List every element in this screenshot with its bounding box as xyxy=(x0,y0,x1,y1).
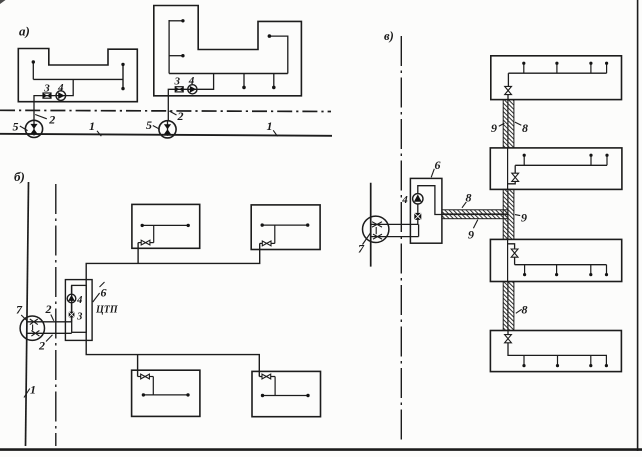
svg-text:9: 9 xyxy=(521,210,527,224)
svg-text:2: 2 xyxy=(38,339,45,353)
svg-text:6: 6 xyxy=(435,158,441,172)
svg-text:4: 4 xyxy=(401,194,408,206)
svg-text:8: 8 xyxy=(522,121,528,135)
svg-text:ЦТП: ЦТП xyxy=(95,305,119,316)
svg-text:5: 5 xyxy=(13,119,19,133)
svg-text:2: 2 xyxy=(45,302,52,316)
svg-text:2: 2 xyxy=(177,109,184,123)
svg-text:9: 9 xyxy=(468,228,474,242)
svg-text:1: 1 xyxy=(267,119,273,133)
svg-text:3: 3 xyxy=(174,76,181,88)
svg-text:в): в) xyxy=(384,29,394,43)
svg-text:3: 3 xyxy=(76,311,82,322)
svg-text:4: 4 xyxy=(76,295,82,306)
svg-text:8: 8 xyxy=(466,191,472,205)
svg-text:1: 1 xyxy=(30,383,36,397)
svg-text:8: 8 xyxy=(522,303,528,317)
svg-text:4: 4 xyxy=(188,75,195,87)
svg-text:3: 3 xyxy=(43,83,50,95)
svg-text:2: 2 xyxy=(48,113,55,127)
svg-text:7: 7 xyxy=(358,242,365,256)
svg-text:4: 4 xyxy=(57,82,64,94)
svg-text:9: 9 xyxy=(491,121,497,135)
svg-text:б): б) xyxy=(14,169,25,184)
svg-text:7: 7 xyxy=(16,303,23,317)
svg-text:а): а) xyxy=(19,24,30,39)
svg-text:6: 6 xyxy=(101,286,107,300)
svg-text:5: 5 xyxy=(146,118,152,132)
svg-text:1: 1 xyxy=(89,119,95,133)
